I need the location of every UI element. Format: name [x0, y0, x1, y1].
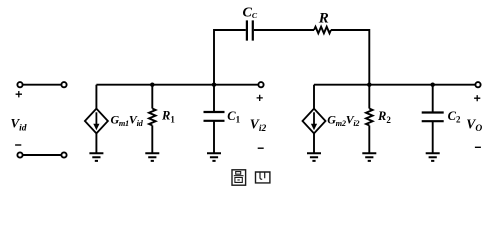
svg-text:C2: C2 [448, 109, 461, 125]
input port top-right terminal [61, 82, 66, 87]
wire R1 bottom stub [151, 125, 153, 152]
Vi2 plus sign [257, 95, 263, 101]
junction node R2 [367, 83, 371, 87]
junction node C2 [431, 83, 435, 87]
input port bottom-right terminal [61, 152, 66, 157]
wire Cc to R [254, 29, 314, 31]
svg-text:R2: R2 [377, 109, 391, 125]
input port bottom-left terminal [17, 152, 22, 157]
wire Gm2 bottom stub [313, 133, 315, 152]
input plus sign [16, 91, 22, 97]
caption glyph Si (four) [256, 172, 270, 183]
svg-text:Gm2Vi2: Gm2Vi2 [327, 113, 359, 128]
wire riser left to Cc [214, 30, 246, 85]
resistor R1 zigzag [149, 109, 156, 126]
ground Gm2 [307, 153, 321, 161]
wire R to riser right [331, 30, 369, 85]
Vi2 minus sign [258, 147, 264, 149]
wire R1 top stub [151, 85, 153, 109]
Vo minus sign [475, 146, 481, 148]
input port bottom wire [23, 154, 61, 156]
wire R2 bottom stub [368, 125, 370, 152]
wire C2 bottom stub [432, 121, 434, 153]
wire C1 bottom stub [213, 121, 215, 153]
resistor R zigzag [314, 27, 331, 34]
wire C2 top stub [432, 85, 434, 113]
junction node R1 [150, 83, 154, 87]
svg-text:VO: VO [466, 117, 482, 135]
svg-text:Vid: Vid [11, 116, 27, 134]
svg-text:CC: CC [243, 6, 258, 21]
caption glyph Tu (figure) [232, 170, 246, 185]
input minus sign [15, 144, 21, 146]
junction node C1 [212, 83, 216, 87]
svg-text:R1: R1 [161, 109, 175, 125]
wire stage2 bus [314, 84, 475, 86]
dependent source Gm1 diamond [85, 109, 108, 134]
wire Gm2 top stub [313, 85, 315, 109]
svg-text:Vi2: Vi2 [250, 117, 267, 135]
ground Gm1 [89, 153, 103, 161]
capacitor Cc [247, 20, 253, 40]
node Vo terminal [475, 82, 480, 87]
ground R2 [362, 153, 376, 161]
wire R2 top stub [368, 85, 370, 109]
wire Gm1 bottom stub [95, 133, 97, 152]
resistor R2 zigzag [366, 109, 373, 126]
capacitor C2 [422, 113, 444, 122]
wire C1 top stub [213, 85, 215, 112]
wire stage1 bus [96, 84, 258, 86]
ground R1 [145, 153, 159, 161]
svg-text:C1: C1 [227, 109, 240, 125]
Vo plus sign [474, 95, 480, 101]
Gm2 arrow [311, 112, 317, 130]
input port top-left terminal [17, 82, 22, 87]
wire Gm1 top stub [95, 85, 97, 109]
svg-text:R: R [318, 11, 329, 27]
input port top wire [23, 84, 61, 86]
svg-text:Gm1Vid: Gm1Vid [111, 113, 144, 128]
Gm1 arrow [93, 112, 99, 130]
dependent source Gm2 diamond [303, 109, 326, 134]
node Vi2 terminal [258, 82, 263, 87]
capacitor C1 [204, 112, 225, 121]
ground C2 [426, 153, 440, 161]
ground C1 [207, 153, 221, 161]
